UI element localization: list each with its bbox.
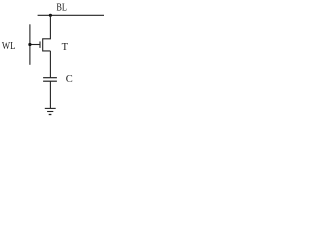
transistor T channel and source/drain stubs: [43, 39, 51, 51]
svg-text:C: C: [66, 74, 73, 85]
capacitor C bottom plate: [43, 80, 57, 82]
ground: [45, 108, 56, 114]
svg-text:BL: BL: [56, 1, 67, 13]
node junction WL-gate: [28, 43, 31, 46]
node junction BL-drain: [49, 14, 52, 17]
wire capacitor to ground: [49, 81, 51, 108]
capacitor C top plate: [43, 77, 57, 79]
svg-text:T: T: [62, 42, 69, 53]
transistor T gate bar: [39, 41, 41, 48]
wire gate: [30, 44, 40, 46]
wire bit line BL: [38, 14, 104, 16]
wire word line WL vertical: [29, 24, 31, 65]
wire source to capacitor: [49, 51, 51, 78]
wire drain vertical: [49, 15, 51, 39]
svg-text:WL: WL: [2, 40, 16, 52]
